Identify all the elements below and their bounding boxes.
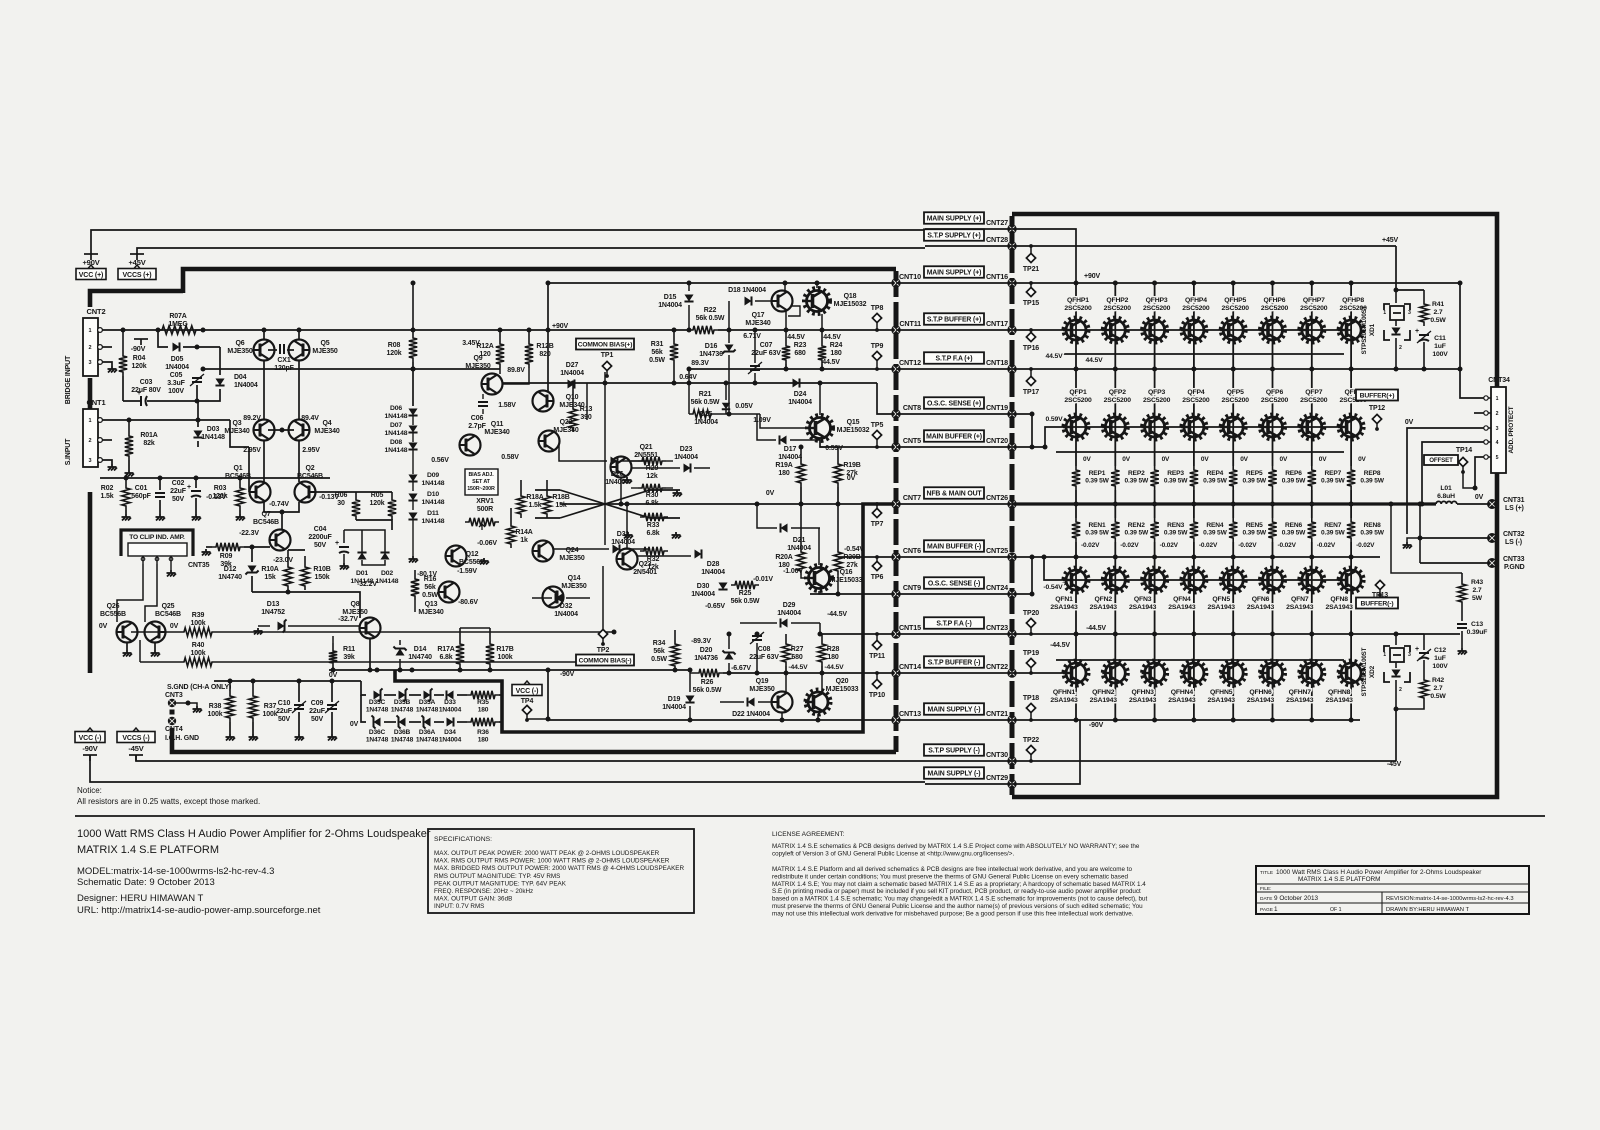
svg-text:50V: 50V [314,542,326,549]
label C07 [751,342,781,357]
wire [499,721,502,723]
svg-text:2: 2 [89,345,92,351]
wire Q20 bottom [817,714,819,720]
bus right dashed CNT column [1010,216,1015,795]
svg-text:QFP6: QFP6 [1266,389,1284,396]
svg-text:MJE340: MJE340 [745,320,770,327]
svg-text:180: 180 [478,707,489,714]
wire [785,634,787,640]
power transistor QFN3 2SA1943 [1142,568,1167,592]
svg-text:22uF: 22uF [309,708,326,715]
wire column 1 mid [1075,490,1077,518]
label Q7 [253,511,279,526]
zener D35B [399,690,406,699]
zener D36C [374,717,381,726]
junction [603,381,608,386]
svg-text:S.GND (CH-A ONLY): S.GND (CH-A ONLY) [167,684,231,691]
svg-text:2SC5200: 2SC5200 [1143,305,1171,312]
junction [1349,502,1354,507]
svg-text:6.8k: 6.8k [645,500,658,507]
label QFHN4 [1168,689,1196,704]
rail stub -90V [83,755,97,761]
svg-text:MAIN BUFFER (-): MAIN BUFFER (-) [927,543,981,550]
svg-text:R01A: R01A [140,432,157,439]
wire [1395,662,1397,668]
svg-text:D25: D25 [700,411,713,418]
wire [361,681,366,695]
label QFHP8 [1339,297,1367,312]
wire [1423,660,1425,676]
pad CNT4 [168,717,176,725]
label Q5 [312,340,337,355]
label R07A [168,313,188,328]
label R08 [387,342,402,357]
svg-text:82k: 82k [143,440,154,447]
svg-text:0V: 0V [1240,456,1248,463]
svg-text:6.8k: 6.8k [439,654,452,661]
svg-text:S.T.P F.A (-): S.T.P F.A (-) [936,620,971,627]
label R22 [696,307,725,322]
diode D24 [793,378,800,387]
svg-text:R30: R30 [646,492,659,499]
svg-text:-0.74V: -0.74V [269,501,289,508]
svg-text:120k: 120k [370,500,385,507]
net label MAIN BUFFER (-) CNT25 [924,540,984,552]
capacitor C11 body [1419,334,1429,336]
net label MAIN SUPPLY (-) CNT21 [924,703,984,715]
svg-text:MAIN SUPPLY (-): MAIN SUPPLY (-) [928,706,981,713]
svg-text:1N4748: 1N4748 [366,737,389,744]
wire [298,712,300,734]
resistor R19A body [797,460,805,487]
ground R01A [125,470,135,477]
junction [612,630,617,635]
svg-text:R20A: R20A [775,554,792,561]
junction [186,701,191,706]
svg-text:0.39 5W: 0.39 5W [1164,478,1188,485]
wire [896,719,1012,721]
wire [197,389,220,401]
wire D13 to Q8 base [288,625,360,627]
svg-text:1N4148: 1N4148 [385,413,408,420]
connector CNT35 [141,556,209,569]
svg-text:XRV1: XRV1 [476,498,494,505]
junction [780,718,785,723]
svg-text:-0.02V: -0.02V [1199,542,1218,549]
wire [548,719,896,721]
junction [1030,412,1035,417]
svg-text:BC546B: BC546B [297,473,323,480]
svg-text:CNT19: CNT19 [986,403,1008,412]
svg-text:S.T.P SUPPLY (-): S.T.P SUPPLY (-) [928,747,979,754]
wire [896,593,1012,595]
wire Q6-Q3 [263,360,265,420]
diode D22 [748,697,755,706]
wire [203,368,500,370]
svg-text:2SC5200: 2SC5200 [1261,305,1289,312]
test point TP4 diamond [522,705,531,721]
wire TP4 [527,718,548,720]
junction [1113,718,1118,723]
svg-text:Q3: Q3 [232,420,241,427]
wire column 3 upper [1154,283,1156,466]
label REP4 [1203,470,1227,485]
svg-text:INPUT: 0.7V RMS: INPUT: 0.7V RMS [434,903,484,910]
label REN7 [1321,522,1345,537]
label D33 [439,699,462,714]
wire [219,347,221,375]
junction [688,668,693,673]
label R06 [335,492,348,507]
svg-text:QFHN2: QFHN2 [1092,689,1115,696]
svg-text:MATRIX 1.4 S.E Platform and al: MATRIX 1.4 S.E Platform and all derived … [772,866,1133,873]
wire [122,330,124,352]
resistor R25 body [731,581,759,589]
resistor R27 body [782,640,790,666]
svg-text:2SA1943: 2SA1943 [1050,697,1078,704]
wire [343,530,345,543]
svg-text:39k: 39k [343,654,354,661]
svg-text:1N4148: 1N4148 [422,480,445,487]
svg-text:0.39 5W: 0.39 5W [1203,530,1227,537]
svg-text:2SA1943: 2SA1943 [1129,697,1157,704]
svg-text:Q10: Q10 [566,394,579,401]
svg-text:R29: R29 [646,465,659,472]
ground R03 [236,514,246,521]
wire [896,413,1012,415]
capacitor C09 body [327,704,337,706]
wire [694,467,710,469]
junction [1152,367,1157,372]
svg-text:4: 4 [1496,440,1499,446]
svg-text:C08: C08 [758,646,771,653]
svg-text:CNT2: CNT2 [87,307,106,316]
net label S.T.P SUPPLY (+) CNT28 [924,229,984,241]
transistor Q17 MJE340 [772,291,793,312]
capacitor C01 body [155,492,165,494]
ground C13 [1458,648,1468,655]
wire [896,633,1012,635]
junction [1074,555,1079,560]
junction [251,679,256,684]
svg-text:R23: R23 [794,342,807,349]
junction [527,328,532,333]
svg-text:CNT9: CNT9 [903,583,921,592]
wire [728,634,730,649]
svg-text:R06: R06 [335,492,348,499]
junction [1349,367,1354,372]
junction [1231,555,1236,560]
capacitor C07 body [750,365,760,367]
wire [195,498,197,514]
junction [818,381,823,386]
resistor R28 body [818,640,826,666]
junction [687,328,692,333]
wire [791,527,820,529]
junction [262,328,267,333]
resistor R17B body [486,640,494,668]
svg-text:LS (+): LS (+) [1505,505,1524,512]
wire [688,305,690,330]
wire [75,815,1545,817]
junction [411,328,416,333]
diode D03 [193,431,202,438]
svg-text:0.39 5W: 0.39 5W [1282,478,1306,485]
svg-text:MAX. BRIDGED RMS OUTPUT POWER:: MAX. BRIDGED RMS OUTPUT POWER: 2000 WATT… [434,865,684,872]
svg-text:D10: D10 [427,491,439,498]
resistor R13 body [569,405,577,432]
label D24 [788,391,812,406]
svg-text:MAX. RMS OUTPUT RMS POWER: 100: MAX. RMS OUTPUT RMS POWER: 1000 WATT RMS… [434,858,670,865]
label QFHN1 [1050,689,1078,704]
wire [756,643,758,673]
wire s.input pin1 [103,419,230,421]
svg-text:D01: D01 [356,570,368,577]
wire Q25 base [140,661,180,663]
junction [498,328,503,333]
zener D16 [724,345,733,352]
ground C02 [192,514,202,521]
wire [154,642,156,650]
svg-text:D36B: D36B [394,729,411,736]
label R28 [827,646,840,661]
ground R33 [624,532,634,539]
svg-text:C09: C09 [311,700,324,707]
resistor REN5 body [1229,518,1237,542]
svg-text:1: 1 [1496,396,1499,402]
transistor Q1 BC546B [250,482,271,503]
wire [1056,451,1344,453]
wire [412,482,414,491]
svg-text:D19: D19 [668,696,681,703]
junction [1191,502,1196,507]
box BUFFER(+) [1356,390,1398,401]
wire column 7 lower [1311,542,1313,720]
svg-text:CNT27: CNT27 [986,218,1008,227]
wire [572,383,574,405]
label QFHN3 [1129,689,1157,704]
resistor REP8 body [1347,466,1355,490]
svg-text:680: 680 [794,350,805,357]
wire [689,368,896,370]
wire [1423,290,1425,300]
svg-text:44.5V: 44.5V [1045,353,1063,360]
wire Q3-Q1 [263,440,265,482]
svg-text:COMMON BIAS(-): COMMON BIAS(-) [579,657,632,664]
svg-text:Q22: Q22 [560,419,573,426]
resistor R42 body [1420,676,1428,702]
svg-text:TP9: TP9 [871,343,884,350]
svg-text:44.5V: 44.5V [823,334,841,341]
junction [1389,502,1394,507]
rectifier XD2 STPS20SM100ST [1383,646,1411,693]
wire [720,701,744,703]
svg-text:I.C.H. GND: I.C.H. GND [165,735,199,742]
label D35C [366,699,389,714]
wire Q17 collector [784,283,786,292]
wire [412,283,414,334]
svg-text:1N4004: 1N4004 [560,370,584,377]
junction [687,367,692,372]
transistor Q10 MJE340 [533,391,554,412]
svg-text:TP2: TP2 [597,647,610,654]
svg-text:R31: R31 [651,341,664,348]
wire [457,721,467,723]
svg-text:PAGE: PAGE [1260,907,1273,913]
wire [384,694,396,696]
wire [1012,633,1460,635]
svg-text:C06: C06 [471,415,484,422]
svg-text:560pF: 560pF [131,493,151,500]
svg-text:-0.02V: -0.02V [1160,542,1179,549]
svg-text:1: 1 [1383,652,1386,658]
diode D04 [215,379,224,386]
test point TP9 diamond [872,351,881,371]
wire [332,667,334,670]
resistor R30 body [638,484,666,492]
power transistor Q15 MJE15032 [807,416,833,441]
test point TP19 diamond [1026,658,1035,674]
svg-text:PEAK OUTPUT MAGNITUDE: TYP. 64: PEAK OUTPUT MAGNITUDE: TYP. 64V PEAK [434,880,567,887]
wire column 2 mid [1114,490,1116,518]
svg-text:1N4752: 1N4752 [261,609,285,616]
junction [1270,281,1275,286]
svg-text:QFHP5: QFHP5 [1224,297,1246,304]
resistor R40 body [180,658,216,666]
wire [546,480,548,492]
net label S.T.P F.A (-) CNT23 [924,617,984,629]
svg-text:CNT18: CNT18 [986,358,1008,367]
transistor Q6 MJE350 [254,340,275,361]
svg-text:2SC5200: 2SC5200 [1182,397,1210,404]
label Q16 [830,569,863,584]
wire [819,623,821,634]
wire [332,643,334,647]
resistor R38 body [226,692,234,722]
wire [820,446,838,448]
svg-text:0.39 5W: 0.39 5W [1164,530,1188,537]
bias adj box [465,469,498,495]
svg-text:2SA1943: 2SA1943 [1325,697,1353,704]
junction [820,328,825,333]
svg-text:0.39 5W: 0.39 5W [1203,478,1227,485]
wire [837,447,839,460]
diode D31 [613,544,620,553]
svg-text:CNT31: CNT31 [1503,497,1525,504]
wire [126,642,128,650]
wire [925,783,1012,785]
svg-text:MAIN SUPPLY (+): MAIN SUPPLY (+) [927,269,982,276]
wire [1012,593,1032,595]
wire [1012,245,1396,247]
junction [1420,502,1425,507]
svg-text:L01: L01 [1440,485,1452,492]
svg-text:22uF: 22uF [276,708,293,715]
svg-text:CNT29: CNT29 [986,773,1008,782]
svg-text:Notice:: Notice: [77,786,102,795]
wire [459,668,461,670]
junction [1074,632,1079,637]
wire [810,593,896,595]
svg-text:0.39 5W: 0.39 5W [1360,478,1384,485]
svg-text:TP7: TP7 [871,521,884,528]
junction [815,281,820,286]
svg-text:MJE15032: MJE15032 [834,301,867,308]
svg-text:-44.5V: -44.5V [1086,625,1106,632]
svg-text:0.59V: 0.59V [825,445,843,452]
svg-text:-44.5V: -44.5V [788,664,808,671]
svg-text:-0.02V: -0.02V [1278,542,1297,549]
test point TP8 diamond [872,313,881,332]
test point TP14 diamond [1458,457,1467,474]
label QFHP1 [1064,297,1092,312]
wire [409,721,421,723]
wire R17 top [460,627,490,629]
power flag VCC(-) mid [512,681,542,696]
svg-text:BC546B: BC546B [225,473,251,480]
svg-text:FILE:: FILE: [1260,886,1271,892]
zener D36B [399,717,406,726]
svg-text:REP1: REP1 [1089,470,1106,477]
wire [896,368,1012,370]
svg-text:R09: R09 [220,553,233,560]
resistor REN4 body [1190,518,1198,542]
wire [1012,719,1360,721]
wire [128,460,130,470]
test point TP10 diamond [872,671,881,689]
diode D25 [722,403,730,410]
svg-text:D18 1N4004: D18 1N4004 [728,287,766,294]
svg-text:REP5: REP5 [1246,470,1263,477]
resistor REP2 body [1111,466,1119,490]
svg-text:RMS OUTPUT MAGNITUDE: TYP. 45V: RMS OUTPUT MAGNITUDE: TYP. 45V RMS [434,873,560,880]
wire [820,440,896,447]
wire R06 R05 bottom [356,520,392,530]
power flag VCC(+) [76,265,106,280]
label R19A [775,462,792,477]
thick bus segment [88,492,93,673]
label QFN7 [1286,596,1314,611]
label R01A [140,432,157,447]
wire [412,501,414,510]
svg-text:R16: R16 [424,576,437,583]
resistor R02 body [122,484,130,510]
diode D23 [684,463,691,472]
svg-text:D23: D23 [680,446,693,453]
svg-text:R17A: R17A [437,646,454,653]
wire [1461,631,1463,648]
label QFP5 [1222,389,1250,404]
wire [414,600,416,612]
wire [1395,320,1397,326]
label D17 [778,446,802,461]
label REN1 [1085,522,1109,537]
svg-text:TP1: TP1 [601,352,614,359]
wire [459,628,461,640]
pad CNT15 [891,629,900,638]
svg-text:2SC5200: 2SC5200 [1143,397,1171,404]
wire [1391,504,1462,573]
transistor Q13 MJE340 [439,582,460,603]
svg-text:BUFFER(-): BUFFER(-) [1360,600,1393,607]
wire to Q1 base [230,420,249,447]
label R17B [496,646,513,661]
junction [195,399,200,404]
test point TP6 diamond [872,555,881,571]
wire Q5 emitter [298,330,300,340]
power transistor Q18 MJE15032 [804,289,830,314]
svg-text:0V: 0V [170,623,179,630]
